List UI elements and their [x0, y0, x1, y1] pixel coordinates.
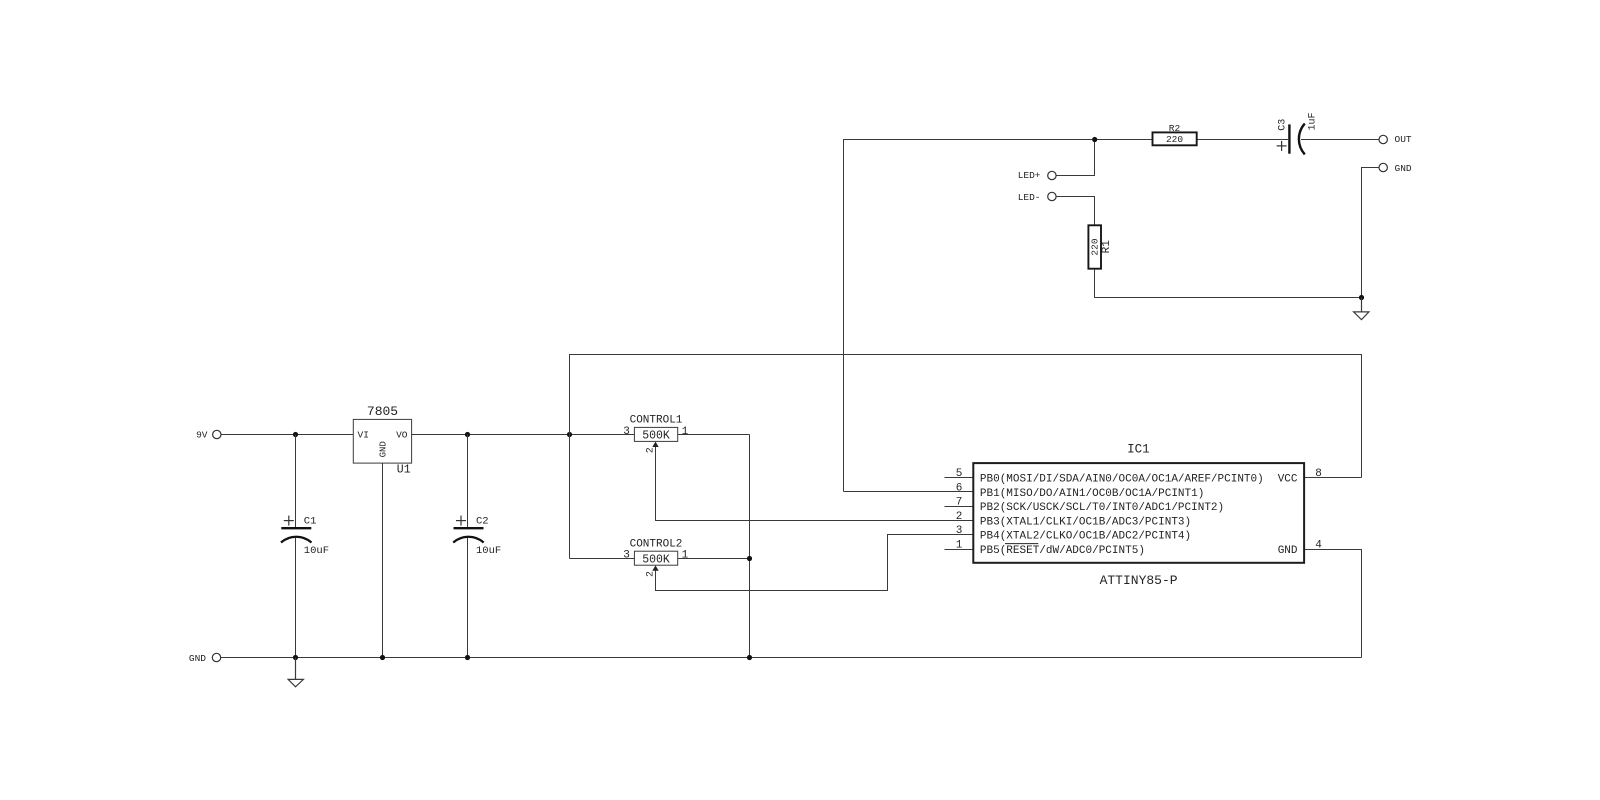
svg-text:GND: GND	[379, 441, 389, 457]
svg-text:PB2(SCK/USCK/SCL/T0/INT0/ADC1/: PB2(SCK/USCK/SCL/T0/INT0/ADC1/PCINT2)	[980, 502, 1224, 514]
svg-text:8: 8	[1315, 468, 1322, 480]
port LED-	[1018, 192, 1056, 203]
ground symbol top-right	[1354, 298, 1369, 320]
port LED+	[1018, 170, 1056, 181]
capacitor C3	[1277, 112, 1319, 154]
svg-text:3: 3	[956, 525, 963, 537]
wire GND bottom rail	[221, 657, 1362, 659]
port GND bottom-left	[189, 653, 221, 664]
svg-text:9V: 9V	[196, 430, 208, 441]
pin RESET overline	[1005, 543, 1038, 545]
node junction C2 top	[465, 432, 470, 437]
svg-text:CONTROL1: CONTROL1	[630, 415, 683, 427]
IC pin 5 stub	[945, 477, 974, 479]
svg-text:2: 2	[645, 571, 656, 577]
svg-text:10uF: 10uF	[304, 545, 329, 557]
node junction C1 bottom	[293, 655, 298, 660]
wire CONTROL1 pin1 stub	[678, 434, 750, 436]
svg-text:220: 220	[1166, 134, 1183, 145]
svg-text:VI: VI	[358, 430, 369, 441]
svg-text:GND: GND	[1395, 163, 1412, 174]
wire LED- to R1 top	[1056, 197, 1095, 226]
IC pin 7 stub	[945, 506, 974, 508]
ground symbol bottom-left	[288, 658, 303, 687]
IC U IC1 ATTINY85-P	[956, 443, 1323, 589]
wire VCC vertical branch	[570, 355, 1362, 559]
wire IC pin 8 VCC stub	[1304, 477, 1361, 479]
wire C1 top lead	[295, 435, 297, 528]
svg-text:3: 3	[623, 426, 630, 438]
potentiometer CONTROL2	[623, 538, 688, 577]
svg-text:C3: C3	[1278, 119, 1289, 131]
wire LED+ branch	[1056, 140, 1095, 176]
svg-text:GND: GND	[1278, 545, 1298, 557]
svg-text:5: 5	[956, 468, 963, 480]
wire CONTROL2 wiper to IC PB4	[656, 535, 974, 591]
node junction pot net bottom	[747, 655, 752, 660]
wire R2 right to C3	[1197, 139, 1288, 141]
node junction CONTROL2 pin1	[747, 556, 752, 561]
svg-text:1: 1	[682, 550, 689, 562]
wire C1 bottom lead	[295, 538, 297, 658]
svg-text:GND: GND	[189, 653, 206, 664]
wire CONTROL2 pin1 stub	[678, 558, 750, 560]
svg-text:ATTINY85-P: ATTINY85-P	[1100, 573, 1178, 588]
regulator U1 7805	[353, 404, 411, 477]
wire C2 top lead	[467, 435, 469, 528]
svg-text:1: 1	[956, 540, 963, 552]
svg-text:7: 7	[956, 497, 963, 509]
svg-text:2: 2	[645, 447, 656, 453]
svg-text:220: 220	[1090, 238, 1101, 255]
svg-text:4: 4	[1315, 540, 1322, 552]
svg-text:6: 6	[956, 482, 963, 494]
wire GND port down to node	[1362, 168, 1380, 298]
svg-text:PB4(XTAL2/CLKO/OC1B/ADC2/PCINT: PB4(XTAL2/CLKO/OC1B/ADC2/PCINT4)	[980, 531, 1191, 543]
svg-text:PB3(XTAL1/CLKI/OC1B/ADC3/PCINT: PB3(XTAL1/CLKI/OC1B/ADC3/PCINT3)	[980, 516, 1191, 528]
wire 7805 GND pin lead	[382, 463, 384, 657]
svg-text:PB1(MISO/DO/AIN1/OC0B/OC1A/PCI: PB1(MISO/DO/AIN1/OC0B/OC1A/PCINT1)	[980, 488, 1204, 500]
svg-text:CONTROL2: CONTROL2	[630, 538, 683, 550]
resistor R2	[1153, 123, 1197, 145]
wire IC pin 4 GND to rail	[1304, 550, 1361, 658]
svg-text:IC1: IC1	[1127, 443, 1150, 457]
IC pin 1 stub	[945, 549, 974, 551]
node junction LED+ / R2 net	[1092, 137, 1097, 142]
svg-text:C1: C1	[304, 516, 317, 528]
port 9V	[196, 430, 221, 441]
svg-text:7805: 7805	[367, 404, 398, 419]
wire CONTROL1 wiper to IC PB3	[656, 446, 974, 521]
node junction 7805 GND	[380, 655, 385, 660]
wire 7805 VO to pot CONTROL1	[412, 434, 635, 436]
wire R1 bottom to GND net corner	[1095, 269, 1362, 298]
svg-text:2: 2	[956, 511, 963, 523]
svg-text:PB0(MOSI/DI/SDA/AIN0/OC0A/OC1A: PB0(MOSI/DI/SDA/AIN0/OC0A/OC1A/AREF/PCIN…	[980, 474, 1264, 486]
port OUT	[1379, 134, 1412, 145]
svg-text:500K: 500K	[642, 430, 670, 443]
wire CONTROL2 pin3 stub	[570, 558, 635, 560]
svg-text:1: 1	[682, 426, 689, 438]
svg-text:VO: VO	[396, 430, 408, 441]
capacitor C2	[453, 516, 501, 557]
svg-text:VCC: VCC	[1278, 474, 1298, 486]
svg-text:R2: R2	[1169, 123, 1181, 134]
svg-text:PB5(RESET/dW/ADC0/PCINT5): PB5(RESET/dW/ADC0/PCINT5)	[980, 545, 1145, 557]
wire C2 bottom lead	[467, 538, 469, 658]
svg-text:500K: 500K	[642, 553, 670, 566]
wire PB1 horizontal to IC pin 6	[844, 491, 974, 493]
node junction C1 top	[293, 432, 298, 437]
svg-text:3: 3	[623, 550, 630, 562]
port GND top-right	[1379, 163, 1412, 174]
svg-text:C2: C2	[476, 516, 489, 528]
node junction GND top-right	[1359, 295, 1364, 300]
potentiometer CONTROL1	[623, 415, 688, 454]
node junction C2 bottom	[465, 655, 470, 660]
svg-text:R1: R1	[1101, 240, 1113, 254]
svg-text:LED-: LED-	[1018, 192, 1041, 203]
node junction VCC branch	[567, 432, 572, 437]
wire C3 to OUT port	[1301, 139, 1379, 141]
wire pot1 pin1 down to GND rail	[749, 435, 751, 658]
wire 9V rail to 7805 VI	[221, 434, 353, 436]
svg-text:U1: U1	[397, 464, 411, 477]
svg-text:LED+: LED+	[1018, 170, 1041, 181]
resistor R1	[1088, 225, 1112, 268]
wire top net from PB1 vertical to R2	[844, 140, 1153, 492]
svg-text:OUT: OUT	[1395, 134, 1412, 145]
capacitor C1	[281, 516, 329, 557]
svg-text:10uF: 10uF	[476, 545, 501, 557]
svg-text:1uF: 1uF	[1307, 112, 1318, 130]
